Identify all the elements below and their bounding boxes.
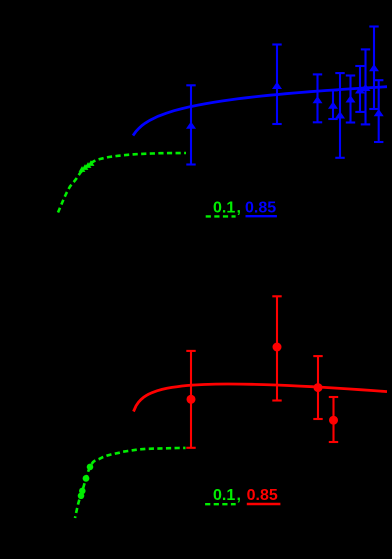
top panel legend: blue solid underline (246, 215, 277, 217)
svg-text:0.85: 0.85 (245, 200, 276, 217)
svg-text:,: , (237, 487, 241, 504)
top panel: blue error bar point 6 (346, 76, 356, 123)
top panel: blue error bar point 2 (272, 45, 282, 125)
top panel: blue model curve (0.85) (133, 87, 387, 136)
top panel: green triangle markers on dashed curve (79, 160, 95, 172)
svg-text:,: , (237, 200, 241, 217)
top panel: blue error bar point 9 (369, 27, 379, 110)
bottom panel: red error bar point 1 (186, 351, 195, 448)
top panel: blue error bar point 1 (186, 85, 196, 164)
top panel: blue error bar point 7 (355, 66, 365, 112)
bottom panel legend: green dashed underline (205, 503, 236, 505)
bottom panel legend: red solid underline (247, 503, 281, 505)
top panel: blue error bar point 5 (335, 73, 345, 158)
bottom panel: red error bar point 4 (329, 397, 338, 442)
svg-text:0.85: 0.85 (247, 487, 278, 504)
top panel: green dashed model curve (0.1) (58, 153, 186, 213)
svg-text:0.1: 0.1 (213, 200, 235, 217)
top panel legend: green dashed underline (206, 215, 236, 217)
bottom panel: red model curve (0.85) (134, 384, 388, 412)
svg-text:0.1: 0.1 (213, 487, 235, 504)
bottom panel: red error bar point 2 (272, 296, 281, 400)
top panel: blue error bar point 3 (313, 74, 323, 122)
bottom panel: green dashed model curve (0.1) (75, 448, 186, 518)
bottom panel: red error bar point 3 (313, 356, 322, 419)
bottom panel: green circle markers on dashed curve (78, 464, 94, 500)
top panel: blue error bar point 8 (361, 49, 371, 124)
top panel: blue error bar point 4 (328, 90, 338, 119)
top panel: blue error bar point 10 (374, 80, 384, 142)
